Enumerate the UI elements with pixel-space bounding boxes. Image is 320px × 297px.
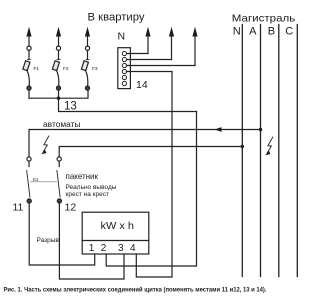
svg-text:11: 11: [13, 202, 24, 214]
svg-text:N: N: [118, 31, 126, 43]
label автоматы: [43, 119, 81, 129]
arrow to apartment 2 (from block 14): [169, 27, 174, 60]
svg-text:Разрыв: Разрыв: [37, 237, 60, 244]
wire block14 pin1 to arrow1: [127, 53, 149, 55]
circuit breaker F2: [52, 46, 69, 90]
svg-text:F3: F3: [92, 66, 98, 72]
arrow to apartment above breaker F3: [85, 27, 90, 46]
wire magistral line A: [260, 25, 262, 277]
wire block14 pin3 to arrow3: [127, 65, 196, 67]
arrow to apartment above breaker F2: [56, 27, 61, 46]
svg-text:Реально выводы: Реально выводы: [66, 184, 117, 191]
junction dot on line A: [259, 128, 262, 131]
meter pin 3: [118, 243, 124, 254]
wire breaker F2 to bus 13: [58, 90, 60, 98]
trip arrow symbol left: [41, 136, 49, 154]
label 11: [13, 202, 24, 214]
wire magistral line B: [278, 25, 280, 277]
svg-text:крест на крест: крест на крест: [66, 191, 109, 198]
net label N (magistral): [233, 25, 241, 37]
meter pin 2: [101, 243, 107, 254]
svg-text:kW x h: kW x h: [101, 220, 135, 232]
wire pole 12 down to meter terminal 3: [59, 203, 124, 279]
mechanical link of S1: [31, 181, 57, 183]
svg-text:F2: F2: [63, 66, 69, 72]
meter pin 1: [89, 243, 95, 254]
label 12: [65, 202, 77, 214]
switch pole 12 of S1: [57, 157, 62, 203]
meter pin 4: [130, 243, 136, 254]
switch pole 11 of S1: [27, 157, 32, 203]
arrow to apartment 1 (from block 14): [145, 27, 150, 54]
terminal block 14: [118, 48, 131, 89]
label 13: [64, 101, 77, 113]
wire magistral line C: [296, 25, 298, 277]
wire block14 pin2 to arrow2: [127, 59, 172, 61]
svg-text:13: 13: [64, 101, 77, 113]
svg-text:2: 2: [101, 243, 107, 254]
note Разрыв: [37, 237, 60, 244]
arrow to apartment above breaker F1: [26, 27, 31, 46]
label N of block 14: [118, 31, 126, 43]
wire tap from line A to switch pole 11: [29, 130, 261, 157]
trip arrow symbol right: [265, 137, 273, 155]
wire breaker F1 to bus 13: [28, 90, 30, 98]
label пакетник: [66, 171, 99, 181]
net label C (magistral): [285, 25, 293, 37]
wire tap from line N to switch pole 12: [59, 147, 242, 157]
svg-text:автоматы: автоматы: [43, 119, 81, 129]
label S1: [33, 177, 39, 183]
net label A (magistral): [249, 25, 257, 37]
svg-text:S1: S1: [33, 177, 39, 183]
wire node 13 riser down to meter terminal 2: [106, 112, 196, 267]
svg-text:A: A: [249, 25, 257, 37]
wire bus 13 drop to node: [59, 98, 197, 111]
note крест на крест: [66, 191, 109, 198]
circuit breaker F3: [81, 46, 98, 90]
svg-text:14: 14: [136, 79, 148, 91]
wire bus 13 horizontal: [29, 90, 88, 98]
wire pole 11 down to meter terminal 1: [29, 203, 95, 265]
svg-text:1: 1: [89, 243, 95, 254]
net label B (magistral): [268, 25, 275, 37]
junction dot on line N: [241, 145, 244, 148]
caption Рис. 1: [4, 285, 267, 293]
svg-text:B: B: [268, 25, 275, 37]
label 14: [136, 79, 148, 91]
junction dot on bus 13: [57, 97, 60, 100]
electric meter kWh body: [82, 212, 149, 254]
svg-text:пакетник: пакетник: [66, 171, 99, 181]
label kW x h: [101, 220, 135, 232]
svg-text:Рис. 1. Часть схемы электричес: Рис. 1. Часть схемы электрических соедин…: [4, 285, 267, 293]
svg-text:Магистраль: Магистраль: [232, 13, 296, 25]
svg-text:N: N: [233, 25, 241, 37]
arrow to apartment 3 (from block 14): [192, 27, 197, 66]
circuit breaker F1: [23, 46, 40, 90]
svg-text:12: 12: [65, 202, 77, 214]
label "Магистраль": [232, 13, 296, 25]
wire magistral line N: [241, 25, 243, 277]
arrowhead on pole 11 feed wire: [215, 127, 222, 132]
svg-text:3: 3: [118, 243, 124, 254]
wire block14 pin4 down to meter terminal 4 riser: [127, 72, 173, 278]
note Реально выводы: [66, 184, 117, 191]
svg-text:4: 4: [130, 243, 136, 254]
svg-text:В квартиру: В квартиру: [88, 12, 145, 24]
label "В квартиру": [88, 12, 145, 24]
svg-text:C: C: [285, 25, 293, 37]
svg-text:F1: F1: [34, 66, 40, 72]
